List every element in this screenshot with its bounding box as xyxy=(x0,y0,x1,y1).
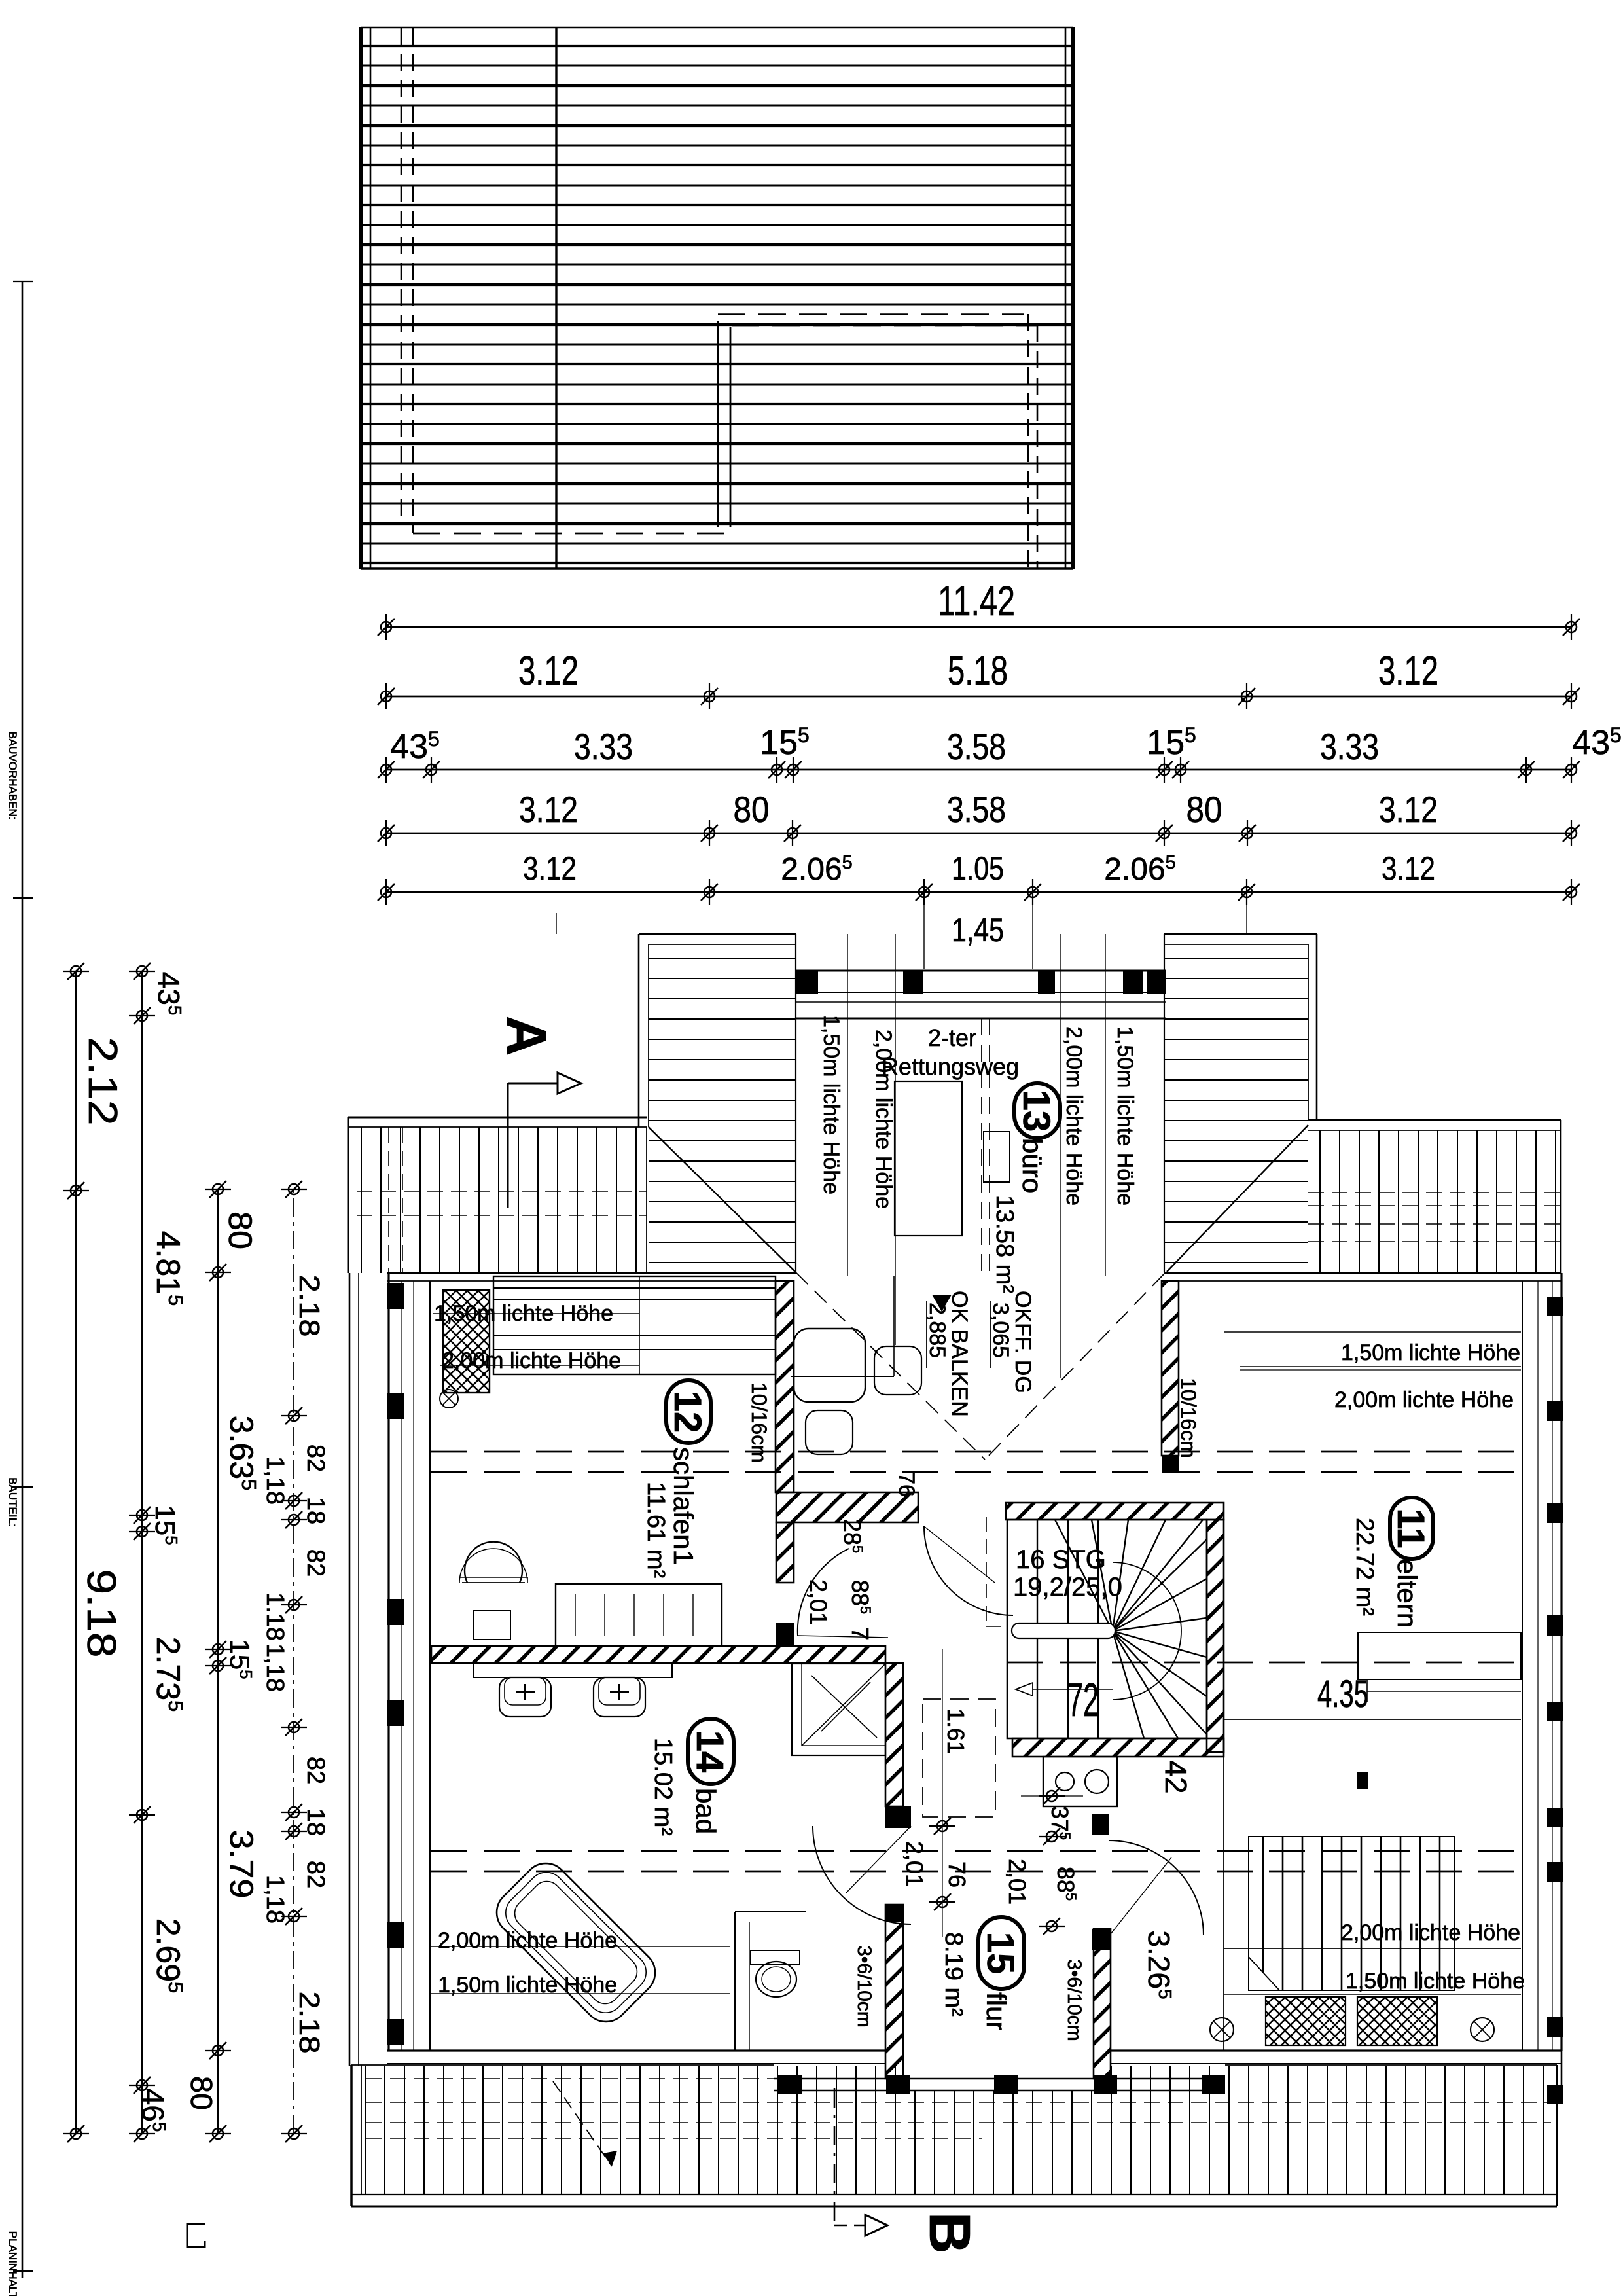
svg-text:1.18: 1.18 xyxy=(261,1592,289,1641)
svg-text:5.18: 5.18 xyxy=(948,649,1008,694)
svg-text:2.065: 2.065 xyxy=(1104,852,1176,887)
svg-text:2,00m lichte Höhe: 2,00m lichte Höhe xyxy=(442,1348,621,1373)
svg-text:schlafen1: schlafen1 xyxy=(668,1447,699,1565)
svg-text:3.33: 3.33 xyxy=(574,726,633,767)
svg-text:1.61: 1.61 xyxy=(942,1708,969,1754)
svg-text:18: 18 xyxy=(302,1808,329,1836)
svg-text:A: A xyxy=(495,1016,557,1056)
svg-text:1,50m lichte Höhe: 1,50m lichte Höhe xyxy=(1113,1026,1137,1206)
svg-text:15.02 m²: 15.02 m² xyxy=(649,1738,677,1836)
svg-text:18: 18 xyxy=(302,1497,329,1524)
svg-text:2,00m lichte Höhe: 2,00m lichte Höhe xyxy=(1341,1920,1520,1945)
svg-text:flur: flur xyxy=(981,1992,1012,2030)
svg-text:büro: büro xyxy=(1017,1138,1048,1193)
svg-text:11.61 m²: 11.61 m² xyxy=(642,1482,669,1578)
svg-text:1,50m lichte Höhe: 1,50m lichte Höhe xyxy=(438,1973,617,1998)
svg-text:1,18: 1,18 xyxy=(261,1456,289,1505)
svg-text:2,01: 2,01 xyxy=(1004,1859,1031,1905)
svg-text:BAUVORHABEN:: BAUVORHABEN: xyxy=(7,731,19,819)
svg-text:8.19 m²: 8.19 m² xyxy=(940,1932,967,2017)
svg-text:14: 14 xyxy=(688,1731,731,1773)
svg-text:76: 76 xyxy=(894,1472,919,1497)
svg-text:3.12: 3.12 xyxy=(523,850,577,887)
svg-text:3•6/10cm: 3•6/10cm xyxy=(1063,1959,1085,2041)
svg-text:OKFF. DG: OKFF. DG xyxy=(1010,1291,1035,1393)
svg-text:10/16cm: 10/16cm xyxy=(1177,1378,1200,1458)
svg-text:OK BALKEN: OK BALKEN xyxy=(947,1291,972,1417)
svg-text:80: 80 xyxy=(222,1211,259,1249)
svg-text:3.265: 3.265 xyxy=(1142,1930,1176,1999)
svg-text:80: 80 xyxy=(185,2076,219,2110)
svg-text:16 STG: 16 STG xyxy=(1016,1545,1106,1574)
svg-text:82: 82 xyxy=(302,1444,329,1472)
svg-text:1,45: 1,45 xyxy=(952,912,1004,948)
svg-text:2,00m lichte Höhe: 2,00m lichte Höhe xyxy=(438,1928,617,1953)
svg-text:9.18: 9.18 xyxy=(79,1570,124,1658)
svg-text:3.58: 3.58 xyxy=(947,726,1006,767)
svg-text:11: 11 xyxy=(1389,1508,1432,1548)
svg-text:3.12: 3.12 xyxy=(518,649,579,694)
svg-text:3,065: 3,065 xyxy=(988,1302,1013,1358)
svg-text:3.58: 3.58 xyxy=(947,789,1006,830)
svg-text:82: 82 xyxy=(302,1549,329,1577)
svg-text:13.58 m²: 13.58 m² xyxy=(991,1195,1018,1293)
svg-text:3.79: 3.79 xyxy=(223,1830,260,1899)
svg-text:82: 82 xyxy=(302,1861,329,1888)
svg-text:2,00m lichte Höhe: 2,00m lichte Höhe xyxy=(871,1030,896,1209)
svg-text:3.33: 3.33 xyxy=(1320,726,1379,767)
svg-text:1,18: 1,18 xyxy=(261,1875,289,1924)
svg-text:12: 12 xyxy=(666,1391,709,1433)
svg-text:11.42: 11.42 xyxy=(938,577,1015,624)
svg-text:2-ter: 2-ter xyxy=(928,1024,976,1051)
svg-text:1,50m lichte Höhe: 1,50m lichte Höhe xyxy=(1341,1340,1520,1365)
svg-text:2.18: 2.18 xyxy=(293,1275,325,1337)
svg-text:2.18: 2.18 xyxy=(293,1992,325,2054)
svg-text:2,00m lichte Höhe: 2,00m lichte Höhe xyxy=(1061,1026,1086,1206)
svg-text:3.12: 3.12 xyxy=(1378,649,1438,694)
svg-text:3.12: 3.12 xyxy=(519,789,578,830)
svg-text:3•6/10cm: 3•6/10cm xyxy=(853,1945,875,2028)
svg-text:1,50m lichte Höhe: 1,50m lichte Höhe xyxy=(819,1015,844,1194)
svg-text:2,01: 2,01 xyxy=(901,1841,928,1887)
svg-text:82: 82 xyxy=(302,1757,329,1784)
svg-text:BAUTEIL:: BAUTEIL: xyxy=(7,1477,19,1527)
svg-text:3.12: 3.12 xyxy=(1382,850,1435,887)
svg-text:2,00m lichte Höhe: 2,00m lichte Höhe xyxy=(1334,1388,1514,1412)
svg-text:72: 72 xyxy=(1067,1674,1099,1727)
svg-text:19,2/25,0: 19,2/25,0 xyxy=(1013,1573,1122,1602)
svg-text:7: 7 xyxy=(847,1627,874,1640)
svg-text:2.065: 2.065 xyxy=(781,852,853,887)
svg-text:eltern: eltern xyxy=(1392,1559,1423,1628)
svg-text:1,50m lichte Höhe: 1,50m lichte Höhe xyxy=(1346,1969,1525,1994)
svg-text:1,18: 1,18 xyxy=(261,1643,289,1692)
svg-text:3.12: 3.12 xyxy=(1379,789,1438,830)
svg-text:2.12: 2.12 xyxy=(80,1037,125,1126)
svg-text:22.72 m²: 22.72 m² xyxy=(1351,1518,1378,1616)
svg-text:80: 80 xyxy=(734,789,770,830)
svg-text:10/16cm: 10/16cm xyxy=(747,1382,771,1463)
svg-text:B: B xyxy=(918,2212,982,2254)
svg-text:4.35: 4.35 xyxy=(1317,1673,1368,1715)
svg-text:76: 76 xyxy=(944,1861,971,1888)
svg-text:PLANINHALT:: PLANINHALT: xyxy=(7,2231,19,2296)
svg-text:Rettungsweg: Rettungsweg xyxy=(882,1053,1019,1080)
svg-text:13: 13 xyxy=(1015,1090,1058,1132)
svg-text:1.05: 1.05 xyxy=(952,850,1004,887)
svg-text:42: 42 xyxy=(1159,1760,1193,1793)
svg-text:15: 15 xyxy=(979,1932,1022,1975)
svg-text:bad: bad xyxy=(690,1788,721,1834)
svg-text:2,885: 2,885 xyxy=(925,1302,950,1358)
svg-text:80: 80 xyxy=(1186,789,1222,830)
svg-text:2,01: 2,01 xyxy=(805,1579,832,1625)
